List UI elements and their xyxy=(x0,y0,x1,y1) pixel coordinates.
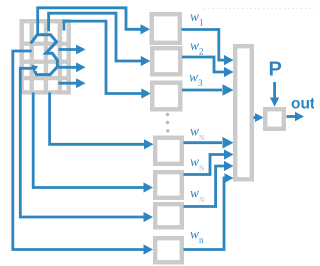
wire left tap B (digit end to box6) xyxy=(20,68,144,217)
arrow into box5 xyxy=(144,182,154,192)
wire sum to P unit xyxy=(254,116,257,119)
arrow w5 into sum xyxy=(224,149,234,159)
wire box1 to sum xyxy=(182,30,226,61)
P unit box xyxy=(265,109,284,129)
digit 3 stroke xyxy=(31,35,58,75)
arrow into box4 xyxy=(144,139,154,149)
wire box5 to sum xyxy=(184,155,226,175)
wire bottom tap D (grid col3 bottom to box4) xyxy=(50,93,145,145)
wire box4 to sum xyxy=(184,141,223,144)
wire top tap 1 (grid col2 to box1) xyxy=(38,8,142,35)
input pixel grid xyxy=(20,21,72,92)
arrow into box7 xyxy=(144,244,154,254)
arrow w2 into sum xyxy=(224,67,234,77)
wire box3 to sum xyxy=(182,89,222,92)
wire bottom tap C (grid col2 bottom to box5) xyxy=(33,93,144,188)
ellipsis dots xyxy=(166,113,169,116)
wire box2 to sum xyxy=(182,57,225,72)
wire box6 to sum xyxy=(184,166,226,207)
faint dotted artifact line xyxy=(204,8,314,10)
svg-text:P: P xyxy=(269,59,282,81)
arrow into box6 xyxy=(144,212,154,222)
out arrow xyxy=(287,115,297,118)
arrow into P unit xyxy=(255,113,264,122)
weight box 2 xyxy=(152,48,180,74)
arrow w4 into sum xyxy=(223,137,234,149)
arrow w3 into sum xyxy=(223,84,234,96)
arrow w7 into sum xyxy=(225,173,234,183)
digit 3 end arrowhead xyxy=(31,65,38,72)
P arrow down xyxy=(273,82,276,99)
wire top tap 2 (grid col3 to box2) xyxy=(49,13,142,61)
weight box 7 xyxy=(155,238,182,262)
weight box 3 xyxy=(152,83,180,110)
arrow into box3 xyxy=(141,88,151,98)
grid right arrow 3 xyxy=(59,82,78,85)
grid right arrow 2 xyxy=(59,66,78,69)
wire box7 to sum xyxy=(184,178,227,250)
arrow w6 into sum xyxy=(224,161,234,171)
grid right arrow 1 xyxy=(59,48,78,51)
wire top tap 3 (grid col4 to box3) xyxy=(64,21,142,93)
weight box 1 xyxy=(152,14,180,43)
weight box 4 xyxy=(155,138,182,164)
wire left tap A (grid row2 to box7) xyxy=(13,51,144,250)
summation bar xyxy=(235,46,252,179)
weight box 6 xyxy=(155,204,182,227)
arrow w1 into sum xyxy=(224,55,234,65)
weight box 5 xyxy=(155,172,182,198)
arrow into box2 xyxy=(141,56,151,66)
svg-text:out: out xyxy=(291,96,314,113)
arrow into box1 xyxy=(141,24,151,34)
